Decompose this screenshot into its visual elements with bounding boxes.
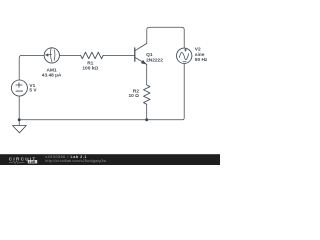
label R2 (128, 89, 139, 100)
svg-text:V2: V2 (195, 47, 201, 53)
svg-text:Q1: Q1 (146, 52, 153, 58)
ground (13, 126, 27, 133)
wire V1 top to AM1 left (19, 55, 44, 80)
svg-text:50 Hz: 50 Hz (195, 57, 208, 63)
wire Q1 collector to V2 top (147, 27, 184, 48)
wire V2 bottom to ground rail (19, 64, 184, 120)
svg-text:R1: R1 (87, 60, 93, 66)
label R1 (82, 60, 98, 71)
svg-text:43.48 µA: 43.48 µA (42, 73, 62, 79)
wire AM1 right to R1 left (59, 54, 80, 56)
svg-text:100 kΩ: 100 kΩ (82, 66, 98, 72)
label V2 (195, 47, 208, 63)
svg-text:10 Ω: 10 Ω (128, 93, 139, 99)
junction node at ground rail left (18, 118, 21, 121)
svg-text:5 V: 5 V (29, 88, 37, 94)
svg-text:2N2222: 2N2222 (146, 57, 163, 63)
watermark bar (0, 154, 220, 165)
resistor R1 (81, 52, 104, 59)
wire R2 bottom to ground rail (146, 104, 148, 119)
voltage source V1 (11, 80, 27, 96)
svg-text:LAB: LAB (29, 160, 36, 164)
wire V1 bottom to ground (18, 96, 20, 125)
label V1 (29, 83, 37, 94)
resistor R2 (144, 85, 151, 104)
ammeter AM1 (44, 48, 59, 63)
junction node at R2 bottom (145, 118, 148, 121)
wire Q1 emitter to R2 top (146, 64, 148, 85)
label Q1 (146, 52, 163, 63)
label AM1 (42, 68, 62, 79)
voltage source V2 (177, 48, 192, 63)
wire R1 right to Q1 base (103, 54, 135, 56)
transistor Q1 (135, 43, 147, 64)
svg-text:http://circuitlab.com/c25uckga: http://circuitlab.com/c25uckgaxp3w (45, 159, 106, 163)
